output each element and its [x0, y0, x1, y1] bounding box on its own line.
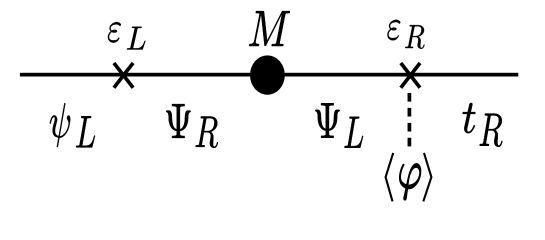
label epsilon_L: subscript L: [127, 27, 145, 50]
fermion line: [20, 73, 518, 77]
label epsilon_R: subscript R: [405, 25, 424, 49]
label vev: varphi: [399, 164, 421, 200]
label Psi_R: subscript R: [196, 117, 218, 148]
label M: [249, 11, 290, 46]
label Psi_L: subscript L: [344, 117, 363, 148]
mass insertion cross epsilon_L: [114, 63, 133, 88]
label vev: right angle bracket: [423, 153, 431, 202]
label Psi_L: Psi: [315, 103, 339, 137]
label t_R: subscript R: [480, 114, 503, 147]
mass insertion blob M: [250, 55, 285, 94]
mass insertion cross epsilon_R: [401, 63, 420, 88]
label epsilon_L: epsilon: [108, 22, 121, 43]
label epsilon_R: epsilon: [387, 20, 400, 41]
label psi_L: psi: [50, 103, 70, 147]
dashed scalar vev line: [408, 93, 412, 146]
label psi_L: subscript L: [76, 116, 95, 147]
label vev: left angle bracket: [386, 153, 394, 202]
label t_R: t: [463, 103, 476, 133]
label Psi_R: Psi: [166, 104, 190, 138]
